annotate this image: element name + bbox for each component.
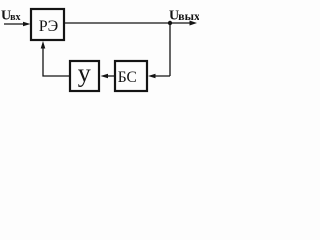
wire input arrow into РЭ <box>4 22 31 27</box>
block БС <box>115 61 147 91</box>
wire down from junction <box>169 23 171 76</box>
svg-text:РЭ: РЭ <box>39 18 58 35</box>
svg-text:БС: БС <box>118 69 137 86</box>
wire output from РЭ to the right <box>65 21 197 26</box>
feedback wire У to РЭ (left then up, arrow up) <box>41 41 69 76</box>
block У <box>70 61 99 91</box>
wire БС to У (arrow left) <box>101 74 115 79</box>
block РЭ <box>31 9 64 40</box>
junction node on output line <box>168 21 172 25</box>
wire from junction into БС (arrow left) <box>148 74 170 79</box>
svg-text:Uвых: Uвых <box>169 9 199 24</box>
svg-text:у: у <box>78 59 91 88</box>
